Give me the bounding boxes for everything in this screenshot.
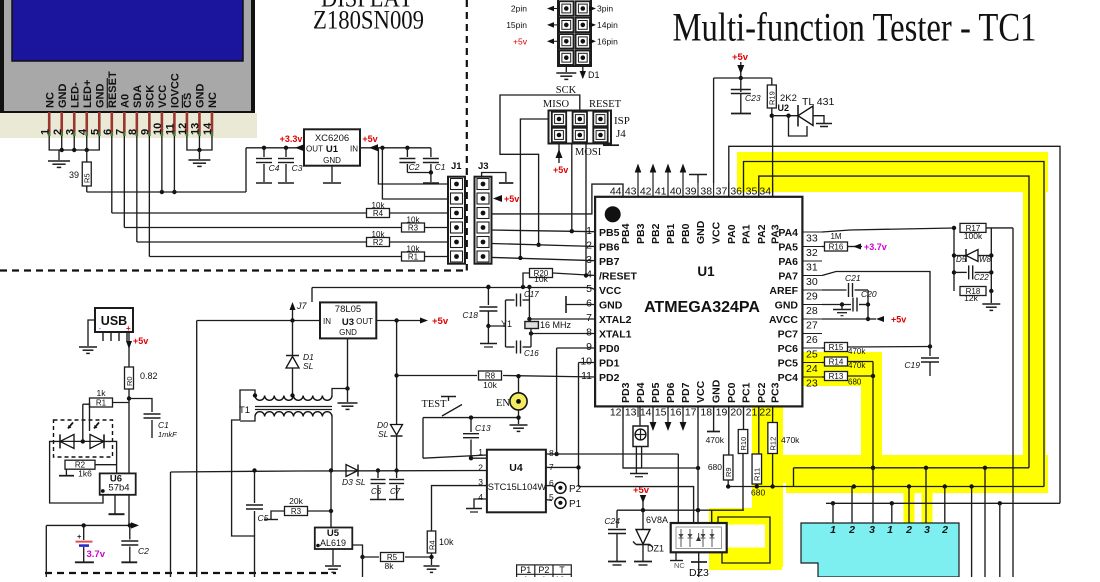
svg-text:OUT: OUT [356, 317, 373, 326]
svg-text:J7: J7 [296, 301, 308, 311]
svg-text:470k: 470k [706, 435, 725, 445]
svg-text:6V8A: 6V8A [646, 515, 668, 525]
svg-text:C20: C20 [861, 289, 877, 299]
svg-text:38: 38 [700, 186, 712, 198]
svg-text:C21: C21 [845, 273, 861, 283]
svg-text:PB7: PB7 [599, 256, 620, 268]
svg-text:C22: C22 [974, 273, 989, 282]
svg-text:T: T [559, 565, 565, 575]
svg-text:A0: A0 [120, 94, 132, 108]
svg-text:PB1: PB1 [665, 223, 677, 244]
svg-text:C7: C7 [390, 487, 401, 496]
svg-text:470k: 470k [848, 361, 866, 370]
svg-text:PA4: PA4 [778, 227, 798, 239]
svg-text:PB4: PB4 [620, 223, 632, 244]
svg-text:C3: C3 [292, 163, 303, 173]
svg-text:27: 27 [806, 320, 818, 332]
svg-text:R5: R5 [83, 173, 92, 183]
svg-text:13: 13 [190, 123, 202, 135]
svg-text:12: 12 [610, 407, 622, 419]
svg-text:100k: 100k [964, 231, 983, 241]
svg-text:PD0: PD0 [599, 343, 620, 355]
svg-text:1: 1 [39, 129, 51, 135]
svg-text:R1: R1 [96, 399, 107, 408]
svg-text:29: 29 [806, 291, 818, 303]
svg-text:MISO: MISO [543, 99, 570, 110]
svg-text:+5v: +5v [732, 52, 749, 63]
svg-text:2: 2 [941, 524, 948, 536]
svg-text:22: 22 [759, 407, 771, 419]
svg-text:3pin: 3pin [597, 4, 613, 14]
svg-text:680: 680 [848, 378, 862, 387]
svg-text:2pin: 2pin [511, 4, 527, 14]
svg-text:MOSI: MOSI [575, 147, 602, 158]
svg-text:R14: R14 [829, 358, 844, 367]
svg-text:8: 8 [586, 327, 592, 339]
svg-text:R13: R13 [829, 372, 844, 381]
svg-text:Z180SN009: Z180SN009 [313, 6, 424, 35]
svg-text:5: 5 [586, 283, 592, 295]
svg-text:14pin: 14pin [597, 20, 618, 30]
svg-text:PC1: PC1 [741, 382, 753, 403]
svg-text:XTAL1: XTAL1 [599, 329, 632, 341]
svg-text:C5: C5 [258, 513, 269, 523]
svg-text:P2: P2 [538, 565, 549, 575]
svg-text:R4: R4 [373, 209, 384, 218]
svg-text:3.7v: 3.7v [87, 549, 106, 560]
svg-text:VCC: VCC [157, 85, 169, 108]
svg-text:C23: C23 [745, 93, 761, 103]
svg-text:7: 7 [586, 312, 592, 324]
svg-text:1k: 1k [97, 388, 107, 398]
svg-text:25: 25 [806, 349, 818, 361]
svg-text:6: 6 [102, 129, 114, 135]
svg-text:C1: C1 [435, 162, 446, 172]
svg-text:GND: GND [711, 379, 723, 403]
svg-text:12: 12 [177, 123, 189, 135]
svg-text:14: 14 [202, 122, 214, 135]
svg-text:42: 42 [640, 186, 652, 198]
svg-text:R19: R19 [768, 91, 777, 105]
svg-text:16 MHz: 16 MHz [540, 320, 572, 330]
svg-text:8: 8 [549, 448, 554, 458]
svg-text:IN: IN [350, 145, 358, 154]
svg-text:PC2: PC2 [756, 382, 768, 403]
svg-text:CS: CS [182, 93, 194, 108]
svg-text:10k: 10k [372, 201, 386, 210]
svg-text:USB: USB [101, 314, 127, 328]
svg-text:3: 3 [924, 524, 930, 536]
svg-text:2: 2 [478, 463, 483, 473]
svg-text:TL 431: TL 431 [802, 96, 834, 108]
svg-text:GND: GND [599, 300, 623, 312]
svg-text:AVCC: AVCC [769, 314, 798, 326]
svg-text:PC0: PC0 [726, 382, 738, 403]
svg-text:PA5: PA5 [778, 242, 798, 254]
svg-text:+5v: +5v [432, 316, 449, 327]
svg-text:AL619: AL619 [320, 538, 346, 548]
svg-text:PA1: PA1 [741, 224, 753, 244]
svg-text:PA0: PA0 [726, 224, 738, 244]
svg-text:1: 1 [830, 524, 836, 536]
svg-text:RESET: RESET [107, 71, 119, 108]
svg-text:PD2: PD2 [599, 372, 620, 384]
svg-text:20k: 20k [289, 496, 303, 506]
svg-text:SDA: SDA [132, 85, 144, 108]
svg-text:2: 2 [586, 240, 592, 252]
svg-text:680: 680 [751, 488, 765, 498]
svg-text:NC: NC [674, 561, 685, 570]
svg-text:+5v: +5v [362, 134, 377, 144]
svg-text:R4: R4 [427, 540, 436, 550]
svg-text:34: 34 [759, 186, 771, 198]
svg-text:PA6: PA6 [778, 256, 798, 268]
svg-text:R3: R3 [291, 507, 302, 516]
svg-text:30: 30 [806, 276, 818, 288]
svg-text:C4: C4 [269, 163, 280, 173]
svg-text:9: 9 [140, 129, 152, 135]
svg-text:+5v: +5v [513, 36, 528, 46]
svg-text:10k: 10k [407, 245, 421, 254]
svg-text:+3.7v: +3.7v [864, 242, 887, 252]
svg-text:PC5: PC5 [778, 358, 799, 370]
svg-text:PD7: PD7 [680, 382, 692, 403]
svg-text:J3: J3 [478, 161, 489, 172]
svg-text:10: 10 [580, 356, 592, 368]
svg-text:9: 9 [586, 341, 592, 353]
svg-text:/RESET: /RESET [599, 271, 638, 283]
svg-text:32: 32 [806, 247, 818, 259]
svg-text:37: 37 [716, 186, 728, 198]
svg-text:D1: D1 [588, 70, 600, 80]
svg-text:15pin: 15pin [506, 20, 527, 30]
svg-text:3: 3 [869, 524, 875, 536]
svg-text:AREF: AREF [769, 285, 798, 297]
svg-text:8k: 8k [385, 561, 395, 571]
svg-text:2: 2 [848, 524, 855, 536]
svg-text:NC: NC [44, 92, 56, 108]
svg-text:40: 40 [670, 186, 682, 198]
svg-text:+5v: +5v [504, 194, 519, 204]
svg-text:C6: C6 [371, 487, 382, 496]
svg-text:31: 31 [806, 262, 818, 274]
svg-text:11: 11 [165, 123, 177, 135]
svg-text:W8: W8 [979, 255, 992, 264]
svg-text:STC15L104W: STC15L104W [488, 482, 547, 492]
svg-text:GND: GND [94, 84, 106, 109]
svg-text:R11: R11 [753, 468, 762, 481]
svg-text:+: + [77, 532, 82, 541]
svg-text:Y1: Y1 [501, 319, 512, 329]
svg-text:D5: D5 [956, 255, 967, 264]
svg-text:P1: P1 [520, 565, 531, 575]
svg-text:R16: R16 [829, 243, 844, 252]
svg-text:23: 23 [806, 378, 818, 390]
svg-text:1M: 1M [830, 232, 841, 241]
svg-text:18: 18 [700, 407, 712, 419]
svg-text:PB5: PB5 [599, 227, 620, 239]
svg-text:SCK: SCK [145, 85, 157, 108]
svg-text:GND: GND [195, 84, 207, 109]
svg-text:U4: U4 [509, 462, 523, 474]
svg-text:78L05: 78L05 [335, 304, 361, 315]
svg-text:RESET: RESET [589, 99, 622, 110]
svg-text:J4: J4 [616, 128, 626, 140]
svg-text:PD4: PD4 [635, 382, 647, 403]
svg-text:R10: R10 [739, 437, 748, 451]
svg-text:39: 39 [685, 186, 697, 198]
svg-text:470k: 470k [781, 435, 800, 445]
svg-text:13: 13 [625, 407, 637, 419]
svg-text:PB0: PB0 [680, 223, 692, 244]
svg-text:LED+: LED+ [82, 80, 94, 108]
svg-text:PB6: PB6 [599, 242, 620, 254]
svg-text:6: 6 [586, 298, 592, 310]
svg-text:R15: R15 [829, 343, 844, 352]
svg-text:3: 3 [586, 254, 592, 266]
svg-text:ISP: ISP [614, 115, 630, 127]
svg-text:XC6206: XC6206 [315, 133, 349, 144]
svg-text:1: 1 [478, 447, 483, 457]
svg-text:C24: C24 [604, 516, 620, 526]
svg-text:2: 2 [905, 524, 912, 536]
svg-text:C2: C2 [409, 162, 420, 172]
svg-text:1: 1 [887, 524, 893, 536]
svg-text:C2: C2 [138, 546, 149, 556]
svg-text:PD6: PD6 [665, 382, 677, 403]
svg-text:SCK: SCK [556, 85, 577, 96]
svg-text:680: 680 [708, 462, 722, 472]
svg-text:3: 3 [478, 477, 483, 487]
svg-text:43: 43 [625, 186, 637, 198]
svg-text:PD3: PD3 [620, 382, 632, 403]
svg-text:36: 36 [730, 186, 742, 198]
svg-text:Multi-function Tester - TC1: Multi-function Tester - TC1 [673, 5, 1037, 50]
svg-text:PC4: PC4 [778, 372, 799, 384]
svg-text:R3: R3 [408, 224, 419, 233]
svg-text:R1: R1 [408, 253, 419, 262]
svg-text:P1: P1 [569, 499, 582, 510]
svg-text:16pin: 16pin [597, 36, 618, 46]
svg-text:+5v: +5v [553, 165, 568, 175]
svg-text:PD5: PD5 [650, 382, 662, 403]
svg-text:19: 19 [716, 407, 728, 419]
svg-text:SL: SL [303, 361, 314, 371]
svg-text:35: 35 [746, 186, 758, 198]
svg-text:4: 4 [77, 128, 89, 135]
svg-text:NC: NC [207, 92, 219, 108]
svg-text:1k6: 1k6 [78, 469, 92, 479]
svg-text:C16: C16 [524, 349, 539, 358]
svg-text:GND: GND [775, 300, 799, 312]
svg-text:R9: R9 [724, 467, 733, 477]
svg-text:10: 10 [152, 123, 164, 135]
svg-text:U1: U1 [697, 264, 715, 279]
svg-text:28: 28 [806, 305, 818, 317]
svg-text:44: 44 [610, 186, 622, 198]
svg-text:C19: C19 [904, 360, 920, 370]
svg-text:IN: IN [323, 317, 331, 326]
svg-text:GND: GND [695, 220, 707, 244]
svg-text:10k: 10k [534, 274, 548, 284]
svg-text:16: 16 [670, 407, 682, 419]
svg-text:PC3: PC3 [770, 382, 782, 403]
svg-text:GND: GND [323, 156, 341, 165]
svg-text:PA7: PA7 [778, 271, 798, 283]
svg-text:PC7: PC7 [778, 329, 799, 341]
svg-text:1mkF: 1mkF [158, 430, 177, 439]
svg-text:C17: C17 [524, 290, 539, 299]
svg-text:4: 4 [478, 492, 483, 502]
svg-text:VCC: VCC [711, 221, 723, 244]
svg-text:+5v: +5v [133, 336, 148, 346]
svg-text:15: 15 [655, 407, 667, 419]
svg-text:2: 2 [52, 129, 64, 135]
svg-text:VCC: VCC [599, 285, 622, 297]
svg-text:10k: 10k [483, 380, 497, 390]
svg-text:C18: C18 [462, 310, 478, 320]
svg-text:+5v: +5v [891, 315, 906, 325]
svg-text:17: 17 [685, 407, 697, 419]
svg-text:14: 14 [640, 407, 652, 419]
svg-text:U1: U1 [326, 144, 339, 155]
svg-text:OUT: OUT [306, 145, 323, 154]
svg-text:C1: C1 [158, 420, 169, 430]
svg-text:P2: P2 [569, 484, 582, 495]
svg-text:J1: J1 [451, 161, 462, 172]
svg-text:ATMEGA324PA: ATMEGA324PA [644, 299, 760, 316]
svg-text:EN: EN [496, 398, 510, 409]
svg-text:41: 41 [655, 186, 667, 198]
svg-text:R12: R12 [768, 437, 777, 451]
svg-text:33: 33 [806, 233, 818, 245]
svg-text:SL: SL [378, 429, 389, 439]
svg-text:PA2: PA2 [756, 224, 768, 244]
svg-text:R2: R2 [373, 238, 384, 247]
svg-text:U2: U2 [777, 103, 789, 113]
svg-text:57b4: 57b4 [108, 483, 129, 494]
svg-text:+3.3v: +3.3v [280, 134, 303, 144]
svg-text:10k: 10k [372, 230, 386, 239]
svg-text:D3 SL: D3 SL [342, 477, 366, 487]
svg-text:GND: GND [339, 328, 357, 337]
svg-text:LED-: LED- [69, 82, 81, 108]
svg-text:20: 20 [730, 407, 742, 419]
svg-text:8: 8 [127, 129, 139, 135]
svg-text:0.82: 0.82 [140, 371, 158, 381]
svg-text:DZ1: DZ1 [647, 544, 664, 554]
svg-text:R0: R0 [125, 376, 134, 386]
svg-text:1: 1 [586, 225, 592, 237]
svg-text:26: 26 [806, 334, 818, 346]
svg-text:PC6: PC6 [778, 343, 799, 355]
svg-text:21: 21 [746, 407, 758, 419]
svg-text:XTAL2: XTAL2 [599, 314, 632, 326]
svg-text:5: 5 [89, 129, 101, 135]
svg-text:GND: GND [57, 84, 69, 109]
svg-text:PB2: PB2 [650, 223, 662, 244]
svg-text:10k: 10k [407, 216, 421, 225]
svg-text:7: 7 [115, 129, 127, 135]
svg-text:TEST: TEST [421, 399, 447, 410]
svg-text:12k: 12k [964, 293, 978, 303]
svg-text:+: + [126, 324, 131, 333]
svg-text:VCC: VCC [695, 380, 707, 403]
svg-text:7: 7 [549, 462, 554, 472]
svg-text:39: 39 [69, 170, 79, 180]
svg-text:C13: C13 [475, 423, 491, 433]
svg-text:-: - [99, 324, 102, 333]
svg-text:PB3: PB3 [635, 223, 647, 244]
svg-text:PD1: PD1 [599, 358, 620, 370]
svg-text:3: 3 [64, 129, 76, 135]
svg-text:U3: U3 [342, 317, 354, 328]
svg-text:10k: 10k [439, 537, 454, 547]
svg-text:24: 24 [806, 363, 818, 375]
svg-text:IOVCC: IOVCC [170, 73, 182, 108]
svg-text:470k: 470k [848, 347, 866, 356]
svg-text:11: 11 [581, 370, 592, 382]
